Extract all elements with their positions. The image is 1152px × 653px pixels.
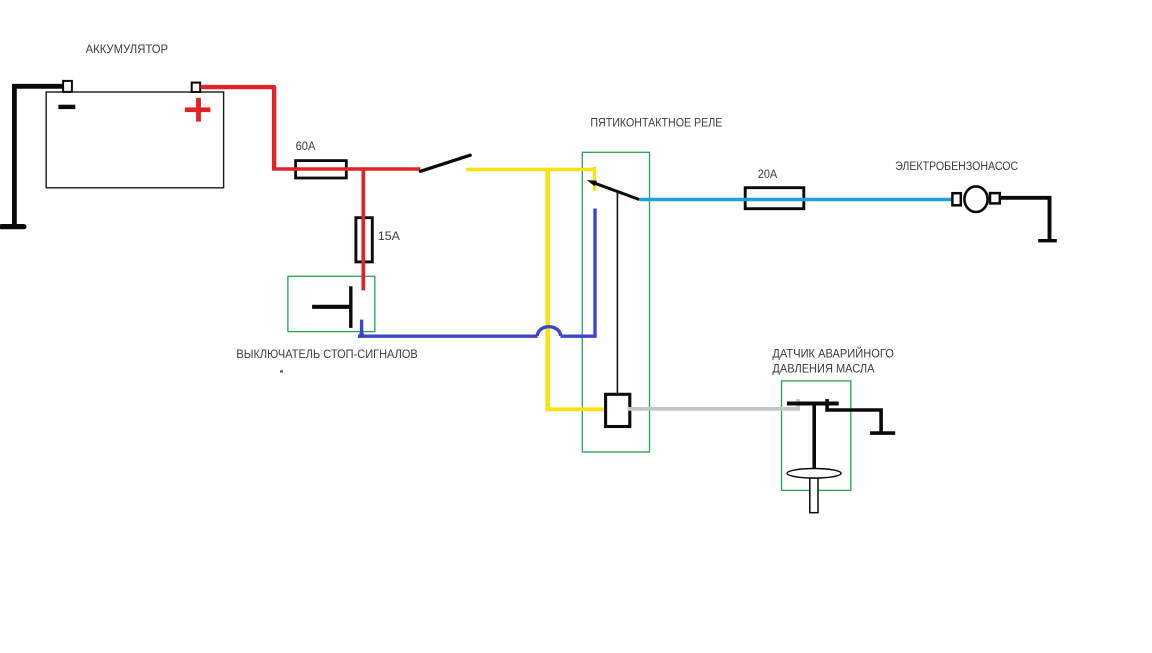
svg-text:20А: 20А (758, 169, 778, 181)
wire gray coil to oil sensor (628, 399, 799, 409)
svg-text:ДАТЧИК АВАРИЙНОГО: ДАТЧИК АВАРИЙНОГО (772, 347, 894, 360)
wire blue hump over yellow (537, 327, 560, 336)
oil pressure sensor box outline (782, 381, 851, 491)
svg-text:ВЫКЛЮЧАТЕЛЬ СТОП-СИГНАЛОВ: ВЫКЛЮЧАТЕЛЬ СТОП-СИГНАЛОВ (236, 349, 418, 361)
ground bar sensor (870, 431, 895, 435)
ground bar battery (2, 224, 24, 229)
wire black pump to ground (1000, 198, 1050, 241)
svg-text:15А: 15А (378, 231, 400, 243)
oil sensor top contact bar (787, 402, 839, 406)
fuse F1 60A (296, 161, 347, 178)
fuse F2 15A (356, 218, 372, 262)
svg-text:60А: 60А (296, 141, 316, 153)
stray period mark (280, 370, 283, 372)
battery GB1 body (46, 92, 223, 188)
wire yellow switch to relay (466, 168, 596, 172)
stop switch contact T horizontal (312, 305, 352, 309)
relay box outline (582, 152, 649, 452)
blue arrowhead at stop switch (358, 328, 366, 338)
svg-text:ЭЛЕКТРОБЕНЗОНАСОС: ЭЛЕКТРОБЕНЗОНАСОС (895, 161, 1018, 173)
wire black battery negative to ground (14, 86, 64, 226)
wire yellow vertical to relay coil (545, 168, 550, 411)
fuel pump M1 right terminal (990, 193, 1000, 203)
svg-text:АККУМУЛЯТОР: АККУМУЛЯТОР (86, 44, 169, 56)
battery minus sign (58, 105, 75, 109)
oil sensor diaphragm ellipse (787, 469, 841, 479)
blue stub into stop switch (360, 320, 363, 337)
wire black sensor to ground (827, 399, 881, 433)
svg-text:ПЯТИКОНТАКТНОЕ РЕЛЕ: ПЯТИКОНТАКТНОЕ РЕЛЕ (590, 117, 722, 129)
relay coil box (606, 394, 630, 426)
ground bar pump (1038, 239, 1057, 242)
stop-signal switch box outline (288, 276, 375, 331)
wire red through 60A fuse to switch (272, 167, 420, 170)
wire yellow bottom to coil terminal (546, 407, 607, 411)
battery plus sign (185, 98, 211, 122)
wire blue horizontal to stop switch (358, 335, 538, 338)
wire blue relay 85 vertical (561, 209, 596, 337)
ignition switch blade S1 (420, 155, 470, 171)
stop switch contact T vertical (349, 286, 352, 328)
wire red battery positive thick (203, 87, 275, 167)
oil sensor stem (812, 404, 816, 470)
fuel pump M1 motor circle (964, 186, 987, 212)
wire yellow drop into relay contact 30 (593, 167, 596, 191)
relay pivot to coil thin wire (616, 193, 618, 398)
wire cyan relay 87 through 20A fuse to pump (639, 198, 953, 201)
relay switch blade arrowhead (587, 180, 597, 186)
fuel pump M1 left terminal (952, 193, 960, 205)
wire red branch through 15A fuse (361, 167, 365, 290)
battery negative terminal post (63, 81, 72, 92)
relay switch blade (591, 182, 639, 200)
svg-text:ДАВЛЕНИЯ МАСЛА: ДАВЛЕНИЯ МАСЛА (772, 364, 874, 376)
battery positive terminal post (192, 83, 201, 92)
oil sensor threaded stub (810, 478, 818, 513)
fuse F3 20A (745, 188, 804, 209)
